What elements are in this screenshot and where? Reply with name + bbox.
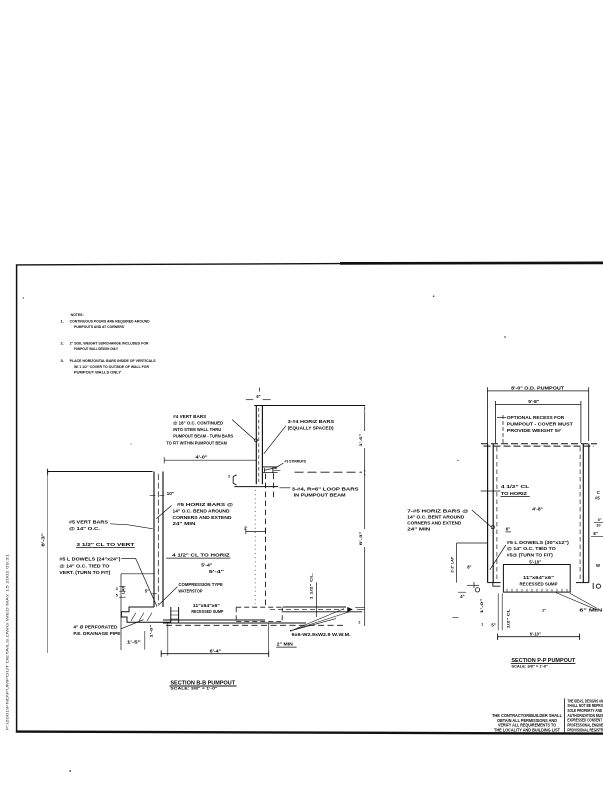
leader #3 stirrups a	[276, 463, 284, 468]
dim 6" tick above	[258, 388, 260, 392]
leader #3 stirrups b	[264, 468, 276, 471]
leader #5 vert a	[110, 524, 128, 525]
footing dim 5" tick	[151, 593, 157, 595]
svg-text:2.: 2.	[61, 341, 64, 346]
slab bottom right	[283, 611, 362, 613]
left wall rebar	[157, 474, 159, 604]
plan wall left inner	[492, 444, 494, 583]
svg-text:2'-2" LAP: 2'-2" LAP	[450, 557, 455, 573]
svg-text:8": 8"	[467, 564, 471, 569]
dim 8-0 ext left	[486, 387, 488, 443]
recess leader arrow	[497, 417, 506, 419]
svg-text:10": 10"	[167, 491, 175, 496]
svg-text:THE LOCALITY AND BUILDING LIST: THE LOCALITY AND BUILDING LIST	[494, 728, 560, 733]
fragment tick b	[591, 536, 603, 538]
bar circle stem	[254, 439, 257, 442]
svg-text:1 1/2" CL.: 1 1/2" CL.	[309, 573, 314, 600]
svg-text:IN PUMPOUT BEAM: IN PUMPOUT BEAM	[294, 493, 346, 498]
svg-text:P:\2001\FND\PUMPOUT DETAILS.DW: P:\2001\FND\PUMPOUT DETAILS.DWG WED MAY …	[5, 554, 9, 730]
dim 6-10 line	[498, 636, 580, 638]
svg-text:2": 2"	[542, 608, 546, 613]
dim 8-0 ext right	[588, 387, 590, 441]
svg-text:6" MIN: 6" MIN	[579, 607, 602, 612]
dim 5-8 ext left	[494, 401, 496, 443]
left wall inner face	[162, 472, 164, 608]
svg-text:SCALE: 3/8" = 1'-0": SCALE: 3/8" = 1'-0"	[170, 685, 217, 690]
dim 6'-4" line	[161, 653, 269, 655]
plan wall right rebar	[579, 447, 581, 581]
svg-text:PLACE HORIZONTAL BARS INSIDE O: PLACE HORIZONTAL BARS INSIDE OF VERTICAL…	[70, 358, 156, 363]
grade line right dashed	[295, 471, 363, 473]
svg-text:3: 3	[116, 587, 118, 591]
svg-text:10: 10	[596, 523, 600, 528]
svg-text:3-#4 HORIZ BARS: 3-#4 HORIZ BARS	[288, 419, 335, 424]
svg-text:5'-10": 5'-10"	[529, 560, 541, 565]
cap end tick	[364, 407, 366, 412]
svg-text:PUMPOUT WALL DESIGN ONLY: PUMPOUT WALL DESIGN ONLY	[74, 346, 118, 351]
svg-text:4 1/2" CL TO HORIZ: 4 1/2" CL TO HORIZ	[172, 552, 230, 557]
svg-text:5'-4": 5'-4"	[209, 569, 224, 574]
plan wall right inner	[582, 444, 584, 583]
dim 6'-4" tick L	[160, 650, 162, 657]
sump box plan	[503, 565, 570, 593]
tick 8" R	[467, 584, 479, 586]
leader #4 vert bars	[232, 420, 255, 441]
plan wall left rebar	[496, 447, 498, 581]
tick 4.5cl R	[481, 490, 501, 492]
dim 2' tick right	[265, 529, 267, 535]
svg-text:#5@ (TURN TO FIT): #5@ (TURN TO FIT)	[507, 553, 554, 558]
ext line 1-5	[144, 631, 146, 650]
svg-text:3": 3"	[598, 517, 602, 522]
svg-text:3-#4, R=6" LOOP BARS: 3-#4, R=6" LOOP BARS	[292, 486, 359, 491]
stem wall right face	[261, 405, 263, 484]
dim 2' tick left	[245, 529, 247, 535]
leader wwm 2	[292, 612, 350, 631]
svg-text:CORNERS AND EXTEND: CORNERS AND EXTEND	[173, 515, 232, 520]
grade line left	[48, 471, 153, 473]
dim right vert seg3	[364, 547, 366, 626]
label 10" tick b	[159, 495, 164, 497]
svg-text:W: W	[596, 563, 600, 568]
underline 6" plan	[505, 531, 511, 533]
footing hatch 3	[147, 613, 152, 621]
beam bottom line	[234, 486, 278, 488]
title underline B-B	[169, 685, 236, 687]
footing ext vert	[120, 574, 122, 650]
dim right vert seg2	[364, 448, 366, 529]
slab arrowhead	[348, 607, 353, 611]
svg-text:4 1/2" CL: 4 1/2" CL	[501, 484, 530, 489]
wwm leader dot	[290, 630, 292, 632]
bar circle stem line R	[473, 582, 475, 588]
svg-text:TO HORIZ: TO HORIZ	[501, 491, 527, 496]
svg-text:OPTIONAL RECESS FOR: OPTIONAL RECESS FOR	[507, 415, 565, 420]
leader wwm 3	[292, 619, 336, 631]
svg-text:11"x64"x6": 11"x64"x6"	[523, 575, 554, 580]
stem wall cap line	[254, 405, 365, 407]
leader dowels horiz	[121, 557, 135, 559]
underline 4.5 cl	[166, 557, 230, 559]
stem wall left face	[255, 405, 257, 484]
leader 7#5	[472, 510, 492, 527]
svg-text:6'-10": 6'-10"	[530, 632, 541, 637]
svg-text:PUMPOUT - COVER MUST: PUMPOUT - COVER MUST	[507, 421, 573, 426]
footing hatch 1	[131, 613, 136, 621]
dimR vert 2-2	[456, 543, 458, 583]
leader 6min 2	[556, 593, 597, 610]
svg-text:#5 HORIZ BARS @: #5 HORIZ BARS @	[177, 502, 233, 507]
border left	[16, 265, 18, 733]
svg-text:5": 5"	[491, 623, 495, 628]
tick 4" R	[458, 591, 466, 593]
beam dashed side A	[265, 474, 267, 607]
leader #5 horiz	[156, 505, 171, 518]
svg-text:8'-0" O.D. PUMPOUT: 8'-0" O.D. PUMPOUT	[511, 385, 564, 390]
svg-text:PROVISIONAL REGISTRA: PROVISIONAL REGISTRA	[567, 727, 603, 732]
ledge small vert	[264, 468, 266, 473]
svg-text:1: 1	[481, 622, 483, 626]
svg-text:PUMPOUT BEAM - TURN BARS: PUMPOUT BEAM - TURN BARS	[173, 434, 233, 439]
svg-text:3 1/2" CL TO VERT: 3 1/2" CL TO VERT	[76, 542, 134, 547]
beam centerline dotted	[254, 490, 256, 604]
svg-text:@ 14" O.C. TIED TO: @ 14" O.C. TIED TO	[59, 563, 110, 568]
border top left segment	[16, 264, 340, 265]
svg-text:4'-8": 4'-8"	[532, 506, 543, 511]
svg-text:24" MIN: 24" MIN	[173, 521, 196, 526]
svg-text:3.: 3.	[61, 358, 64, 363]
svg-text:14" O.C. BEND AROUND: 14" O.C. BEND AROUND	[173, 509, 230, 514]
plan top dashed a	[481, 443, 597, 445]
leader waterstop	[158, 587, 177, 606]
ledge right vert	[272, 467, 274, 474]
plan wall right outer	[588, 444, 590, 583]
leader loop bars dash	[279, 487, 290, 489]
svg-text:#5 L DOWELS (30"x12"): #5 L DOWELS (30"x12")	[507, 540, 570, 545]
dimR tick 2-2	[457, 542, 488, 544]
sump wall left a	[170, 607, 172, 622]
leader 6min 1	[570, 593, 597, 608]
svg-text:COMPRESSION TYPE: COMPRESSION TYPE	[178, 582, 223, 587]
svg-text:CORNERS AND EXTEND: CORNERS AND EXTEND	[407, 521, 461, 526]
tick small R 617	[452, 617, 458, 619]
svg-text:2: 2	[228, 475, 230, 479]
svg-text:#5 L DOWELS (24"x24"): #5 L DOWELS (24"x24")	[59, 556, 121, 561]
beam left bracket	[233, 475, 236, 485]
dim left vert line	[46, 474, 48, 654]
svg-text:5: 5	[116, 593, 118, 597]
underline 3.5 cl	[76, 547, 135, 549]
dim 6-10 tick R	[579, 634, 581, 640]
dim 2' line	[246, 530, 266, 532]
svg-text:NOTES:: NOTES:	[71, 312, 84, 317]
dim 5-8 ext right	[580, 401, 582, 443]
title underline P-P	[511, 663, 576, 665]
plan wall left outer	[487, 444, 489, 583]
right foot circle	[596, 584, 600, 588]
grade line left end tick	[47, 469, 49, 475]
svg-text:LAP: LAP	[121, 585, 125, 594]
dim 6-10 tick L	[497, 634, 499, 640]
svg-text:2" MIN: 2" MIN	[277, 641, 293, 646]
dim 6" dash left	[246, 399, 253, 401]
fragment tick a	[594, 522, 603, 524]
slab bottom long	[163, 622, 306, 624]
tick 1.5 cl	[315, 582, 317, 617]
svg-text:5'-8": 5'-8"	[528, 399, 539, 404]
svg-text:P.E. DRAINAGE PIPE: P.E. DRAINAGE PIPE	[73, 631, 120, 636]
dim 8-0 line	[487, 390, 588, 392]
svg-text:@ 14" O.C. TIED TO: @ 14" O.C. TIED TO	[507, 546, 557, 551]
dim 4'-0" tick	[163, 457, 165, 463]
svg-text:4'-0": 4'-0"	[196, 454, 208, 459]
left wall foot	[488, 582, 501, 584]
tick right bottom a	[355, 607, 364, 609]
svg-text:(EQUALLY SPACED): (EQUALLY SPACED)	[288, 425, 335, 430]
svg-text:4": 4"	[460, 594, 464, 599]
bar circle plan wall	[491, 526, 494, 529]
svg-text:#5 VERT BARS: #5 VERT BARS	[69, 519, 108, 524]
slab top left	[163, 619, 265, 621]
footing outline	[121, 607, 170, 622]
plan top dashed b	[484, 445, 595, 447]
ext line 6'-4" L	[167, 623, 169, 656]
svg-text:RECESSED SUMP: RECESSED SUMP	[520, 581, 558, 586]
svg-text:6": 6"	[256, 394, 260, 399]
svg-text:8'-3": 8'-3"	[41, 533, 46, 546]
recess leader dash-dot	[502, 415, 504, 443]
sump wall left b	[178, 607, 180, 622]
underline 2" min	[276, 646, 296, 648]
svg-text:WATERSTOP: WATERSTOP	[178, 589, 202, 594]
svg-text:INTO STEM WALL THRU: INTO STEM WALL THRU	[173, 427, 221, 432]
tick right bottom b	[357, 608, 364, 610]
svg-text:1'-5": 1'-5"	[127, 639, 141, 644]
svg-text:14" O.C. BENT AROUND: 14" O.C. BENT AROUND	[407, 514, 464, 519]
beam dashed side B	[273, 474, 275, 501]
dim 6'-4" tick R	[268, 650, 270, 657]
svg-text:8": 8"	[593, 531, 597, 536]
svg-text:5'-4": 5'-4"	[201, 562, 212, 567]
dim 5-8 line	[495, 404, 581, 406]
dim 4'-0" line	[164, 459, 256, 461]
svg-text:6'-4": 6'-4"	[210, 648, 222, 653]
leader pipe	[121, 620, 144, 629]
leader dowels diag	[136, 558, 157, 606]
right foot bracket	[592, 583, 594, 589]
svg-text:W/ 1 1/2" COVER TO OUTSIDE OF: W/ 1 1/2" COVER TO OUTSIDE OF WALL FOR	[74, 364, 149, 369]
svg-text:RECESSED SUMP: RECESSED SUMP	[191, 609, 223, 614]
svg-text:1'-6": 1'-6"	[358, 433, 363, 446]
svg-text:7-#5 HORIZ BARS @: 7-#5 HORIZ BARS @	[407, 508, 469, 513]
svg-text:4" Ø PERFORATED: 4" Ø PERFORATED	[73, 624, 117, 629]
grade line dash-dot dots	[364, 470, 365, 471]
svg-text:5": 5"	[145, 589, 149, 594]
left wall foot bracket	[493, 583, 501, 587]
leader 3-#4 horiz	[264, 426, 286, 454]
svg-text:24" MIN: 24" MIN	[407, 527, 430, 532]
slab mid dashed right	[270, 608, 344, 610]
svg-text:PUMPOUTS AND AT CORNERS: PUMPOUTS AND AT CORNERS	[74, 324, 124, 329]
leader wwm 1	[292, 609, 344, 631]
footing hatch 2	[139, 613, 144, 621]
svg-text:1'-0": 1'-0"	[148, 624, 153, 637]
dim 6" dash right	[263, 399, 271, 401]
svg-text:PUMPOUT WALLS ONLY: PUMPOUT WALLS ONLY	[74, 370, 121, 375]
svg-text:1.: 1.	[61, 319, 64, 324]
title block divider	[564, 698, 566, 732]
extR a	[497, 593, 499, 630]
svg-text:6": 6"	[506, 526, 511, 531]
dim right vert seg1	[364, 412, 366, 431]
svg-text:@ 18" O.C. CONTINUED: @ 18" O.C. CONTINUED	[173, 421, 223, 426]
footing dim ticks	[119, 586, 125, 597]
slab dashed under	[166, 624, 345, 626]
svg-text:1'-0": 1'-0"	[479, 598, 484, 613]
slab top right	[283, 606, 346, 608]
ledge bottom	[263, 472, 278, 474]
footing ext horiz	[121, 573, 154, 575]
svg-text:#4 VERT BARS: #4 VERT BARS	[173, 414, 206, 419]
svg-text:VERT. (TURN TO FIT): VERT. (TURN TO FIT)	[59, 570, 111, 575]
leader dowelsR	[490, 545, 506, 570]
ext line 6'-4" R	[268, 623, 270, 651]
svg-text:8'-3": 8'-3"	[358, 531, 363, 545]
hidden sump dashed box	[236, 607, 282, 621]
border top right segment	[340, 262, 603, 265]
left wall outer face	[153, 472, 155, 608]
border bottom	[16, 732, 603, 734]
svg-text:6x6-W2.9xW2.9 W.W.M.: 6x6-W2.9xW2.9 W.W.M.	[292, 632, 351, 637]
svg-text:2: 2	[358, 620, 360, 624]
svg-text:C: C	[597, 490, 600, 495]
svg-text:1/2" CL: 1/2" CL	[505, 608, 510, 629]
svg-text:11"x64"x6": 11"x64"x6"	[193, 603, 220, 608]
bar circle base R	[475, 588, 479, 592]
svg-text:@ 14" O.C.: @ 14" O.C.	[69, 526, 100, 531]
sump rungs	[171, 611, 179, 619]
ledge top	[263, 466, 278, 468]
svg-text:PROVIDE WEIGHT 5#: PROVIDE WEIGHT 5#	[507, 428, 562, 433]
right wall foot	[576, 582, 589, 584]
sump hatch ticks	[507, 589, 567, 592]
scan specks	[504, 336, 506, 338]
label 4" underline	[274, 470, 281, 472]
svg-text:#3 STIRRUPS: #3 STIRRUPS	[285, 458, 307, 463]
extR b	[501, 593, 503, 630]
leader #5 vert b	[128, 525, 153, 529]
svg-text:#5: #5	[595, 496, 600, 501]
underline 4.5cl R	[501, 496, 530, 498]
svg-text:SCALE: 3/8" = 1'-0": SCALE: 3/8" = 1'-0"	[511, 663, 548, 668]
stem wall rebar dashed	[258, 408, 260, 482]
svg-text:2" SOIL WEIGHT SURCHARGE INCLU: 2" SOIL WEIGHT SURCHARGE INCLUDED FOR	[70, 341, 149, 346]
svg-text:TO FIT WITHIN PUMPOUT BEAM: TO FIT WITHIN PUMPOUT BEAM	[166, 440, 227, 445]
label 10" tick a	[150, 495, 156, 497]
